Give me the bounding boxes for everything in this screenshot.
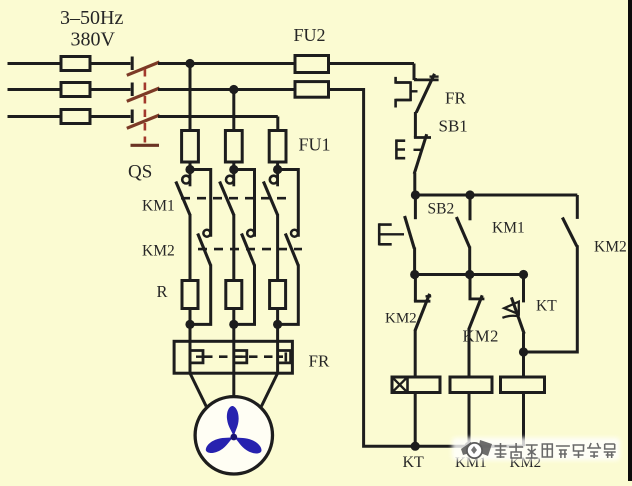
svg-text:KM2: KM2 — [594, 239, 627, 256]
svg-text:SB2: SB2 — [428, 201, 455, 218]
svg-text:KM1: KM1 — [492, 220, 525, 237]
svg-text:R: R — [157, 282, 168, 301]
svg-text:3–50Hz: 3–50Hz — [60, 7, 123, 29]
svg-text:FU2: FU2 — [294, 25, 326, 45]
svg-text:FR: FR — [445, 89, 466, 108]
svg-text:FR: FR — [309, 352, 330, 371]
svg-text:KM2: KM2 — [385, 311, 417, 327]
svg-text:KM2: KM2 — [463, 327, 499, 346]
svg-text:KT: KT — [403, 454, 425, 471]
svg-text:SB1: SB1 — [439, 117, 468, 136]
svg-text:KM1: KM1 — [142, 198, 175, 215]
svg-text:KM2: KM2 — [142, 243, 175, 260]
svg-text:KT: KT — [536, 298, 557, 315]
svg-text:QS: QS — [128, 162, 152, 183]
svg-text:380V: 380V — [71, 29, 116, 51]
svg-text:FU1: FU1 — [299, 135, 331, 155]
